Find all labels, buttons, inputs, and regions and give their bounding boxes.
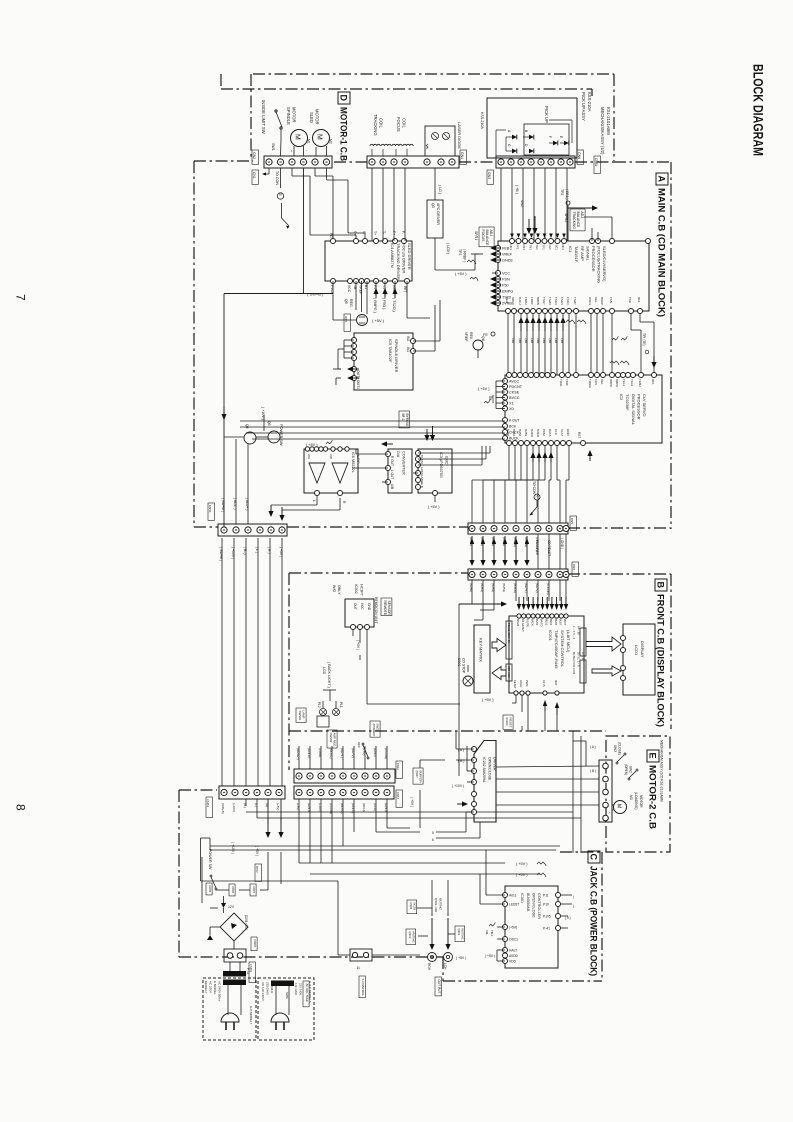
svg-text:B: B [656, 582, 666, 589]
svg-text:RF1: RF1 [651, 379, 655, 385]
arrows between CN5 and CN201 [469, 560, 474, 566]
svg-text:D206: D206 [231, 887, 235, 894]
svg-text:BVCC: BVCC [509, 396, 520, 400]
svg-text:L.P.F: L.P.F [356, 455, 360, 464]
svg-text:( +5V ): ( +5V ) [482, 698, 494, 702]
svg-text:KSS-210A: KSS-210A [587, 92, 592, 112]
svg-text:CN8: CN8 [572, 564, 576, 570]
svg-text:LRCK: LRCK [420, 467, 424, 475]
svg-text:FOCUS: FOCUS [481, 230, 485, 243]
svg-text:POWER SW: POWER SW [208, 849, 212, 870]
svg-text:W/G: W/G [332, 585, 336, 592]
svg-text:8ACK: 8ACK [530, 619, 534, 626]
svg-text:(POWER: (POWER [372, 724, 376, 737]
svg-text:+: + [289, 150, 293, 152]
svg-text:GND: GND [367, 603, 371, 611]
svg-text:OSC1: OSC1 [509, 937, 518, 941]
svg-text:CN6: CN6 [577, 152, 581, 159]
svg-text:TEL1: TEL1 [622, 379, 626, 387]
svg-text:110-120V: 110-120V [294, 983, 298, 995]
svg-text:FS1D: FS1D [566, 297, 570, 306]
svg-text:M: M [316, 134, 323, 140]
svg-text:DF RESET: DF RESET [521, 619, 525, 632]
svg-text:BLOCK DIAGRAM: BLOCK DIAGRAM [751, 64, 767, 156]
IC2 TC9236F [505, 375, 662, 443]
AC plug HUC [271, 1013, 289, 1022]
svg-text:LCD: LCD [322, 667, 326, 675]
svg-text:8U50: 8U50 [506, 429, 510, 437]
arrows on dac bus [381, 441, 387, 446]
svg-text:P13,15,KD20~22: P13,15,KD20~22 [507, 623, 511, 643]
svg-text:F8N: F8N [548, 338, 552, 343]
svg-text:VREF: VREF [464, 332, 468, 342]
op-amp B [332, 463, 348, 483]
svg-text:F8N: F8N [554, 338, 558, 343]
svg-text:TS1P: TS1P [542, 297, 546, 305]
svg-text:F: F [548, 136, 552, 138]
svg-text:AC 240V 50Hz: AC 240V 50Hz [218, 981, 222, 1001]
svg-text:MECHANISM ASSY (1/2): MECHANISM ASSY (1/2) [600, 107, 605, 155]
svg-text:PU INNER: PU INNER [535, 540, 539, 556]
svg-text:CONTROLLER: CONTROLLER [537, 893, 541, 919]
APC driver box [427, 200, 443, 238]
remote sensor unit IC302 [345, 599, 374, 627]
svg-text:RET: RET [403, 286, 407, 292]
svg-text:(KEY2): (KEY2) [535, 583, 539, 593]
op-amp IC1 TA8151F [498, 241, 649, 311]
svg-text:A OUT: A OUT [509, 419, 520, 423]
svg-text:FEB: FEB [502, 247, 510, 251]
mechanism assy boundary (dash-dot) [253, 73, 614, 75]
svg-text:50/60Hz: 50/60Hz [270, 982, 274, 994]
svg-text:TS2P: TS2P [573, 297, 577, 305]
left side stubs of IC1 [481, 247, 485, 249]
svg-text:IC203: IC203 [505, 718, 509, 726]
svg-text:8M8N: 8M8N [536, 297, 540, 305]
long front-jack wires [246, 811, 573, 813]
photo detector block [487, 98, 577, 158]
svg-text:Q3: Q3 [431, 203, 435, 208]
svg-text:(OPEN): (OPEN) [624, 764, 628, 775]
svg-text:( +5V ): ( +5V ) [410, 797, 414, 807]
svg-text:BUCK: BUCK [509, 437, 519, 441]
svg-text:+: + [608, 812, 612, 814]
svg-text:PL1: PL1 [339, 702, 343, 708]
svg-text:8U 8U2 CON COM: 8U 8U2 CON COM [572, 652, 576, 674]
svg-text:( LD0 ): ( LD0 ) [446, 243, 450, 254]
svg-text:( LD ): ( LD ) [438, 185, 442, 194]
bridge rectifier D201-204 [220, 913, 248, 941]
svg-text:BF 2: BF 2 [401, 414, 405, 421]
svg-text:1 ~ 4, 5 ~ 9: 1 ~ 4, 5 ~ 9 [572, 626, 576, 640]
svg-text:REG.: REG. [349, 299, 353, 308]
svg-text:GND3: GND3 [502, 259, 513, 263]
tracking balance adj SFR2 [570, 209, 585, 231]
svg-text:8U51: 8U51 [549, 619, 553, 626]
svg-text:8U50: 8U50 [554, 619, 558, 626]
svg-text:P11: P11 [543, 893, 549, 897]
svg-text:G.K MODEL?: G.K MODEL? [249, 1006, 253, 1025]
svg-text:ONLY: ONLY [337, 585, 341, 595]
wires to motor-2 conn [585, 741, 587, 766]
mains dashed box E/K models [203, 978, 256, 1040]
svg-text:PG/TR: PG/TR [526, 619, 530, 627]
BF bypass box [399, 411, 410, 428]
main c.b bottom border segments [194, 526, 218, 528]
transformer secondary wires [229, 985, 231, 986]
svg-text:8: 8 [14, 804, 28, 811]
svg-text:( F5O ): ( F5O ) [382, 298, 386, 309]
svg-text:SBA0: SBA0 [511, 297, 515, 305]
svg-text:CN2: CN2 [252, 152, 256, 159]
svg-text:MUT: MUT [554, 680, 558, 686]
svg-text:FOCUS: FOCUS [396, 117, 401, 132]
svg-text:Q4: Q4 [245, 424, 249, 429]
svg-text:CONVERTER: CONVERTER [402, 451, 406, 475]
IC201 system control [509, 616, 584, 693]
transformer PT1 [223, 971, 246, 977]
svg-text:D207: D207 [252, 887, 256, 894]
motor-2 connector [599, 760, 612, 822]
svg-text:OUT: OUT [353, 603, 357, 610]
svg-text:RST: RST [577, 432, 581, 438]
svg-text:REMOTE: REMOTE [383, 601, 387, 616]
svg-text:F8N: F8N [518, 338, 522, 343]
svg-text:TO CON: TO CON [275, 171, 279, 185]
sled motor M2 [313, 130, 330, 147]
svg-text:E: E [648, 753, 658, 759]
svg-text:RESET: RESET [509, 718, 513, 728]
wires pickup strip to IC1 [500, 168, 502, 210]
svg-text:TP3: TP3 [458, 249, 462, 255]
mains dashed box HUC models [258, 978, 314, 1040]
svg-text:PL2: PL2 [317, 702, 321, 708]
svg-text:FOCUS DRIVER: FOCUS DRIVER [402, 243, 407, 273]
svg-text:CLK: CLK [420, 455, 424, 461]
svg-text:SW302: SW302 [329, 733, 333, 743]
svg-text:TRUHI: TRUHI [588, 379, 592, 388]
svg-text:CKSE: CKSE [509, 391, 520, 395]
svg-text:T8L1: T8L1 [490, 930, 494, 937]
section label A MAIN C.B [656, 173, 668, 185]
svg-text:( +5V ): ( +5V ) [516, 873, 528, 877]
svg-text:P10: P10 [543, 902, 549, 906]
svg-text:FSN: FSN [502, 278, 510, 282]
svg-text:CN11: CN11 [396, 792, 400, 799]
svg-text:PICK UP: PICK UP [544, 106, 549, 123]
svg-text:ADJ.: ADJ. [489, 230, 493, 237]
svg-text:F8N: F8N [542, 338, 546, 343]
svg-text:(LOADING): (LOADING) [634, 792, 638, 810]
wires CN201 to IC201 arrow row [515, 580, 517, 601]
svg-text:AC 118-120V/: AC 118-120V/ [261, 982, 265, 1001]
svg-text:( +10V ): ( +10V ) [231, 547, 235, 559]
svg-text:PDCNT: PDCNT [509, 385, 523, 389]
svg-text:TMP47C450AF-R445: TMP47C450AF-R445 [554, 630, 559, 669]
muting transistors [407, 900, 417, 914]
svg-text:F8N: F8N [536, 338, 540, 343]
focus balance adj SFR1 [479, 227, 494, 247]
AC plug E/K [221, 1013, 239, 1022]
svg-text:IC5 TA8102F: IC5 TA8102F [388, 339, 393, 363]
svg-text:PROCESSOR: PROCESSOR [637, 394, 642, 420]
svg-text:MAIN C.B (CD MAIN BLOCK): MAIN C.B (CD MAIN BLOCK) [657, 188, 667, 317]
svg-text:CN51: CN51 [208, 505, 212, 513]
IC4 driver AN8827N [325, 241, 412, 281]
svg-text:8U5?: 8U5? [563, 619, 567, 626]
svg-text:(8UCK): (8UCK) [513, 583, 517, 593]
svg-text:X0: X0 [509, 407, 514, 411]
connector strip CN1 (motor board) [264, 156, 332, 168]
svg-text:LAMP: LAMP [302, 711, 306, 719]
IC202 outputs to loading motor connector [496, 766, 599, 767]
svg-text:FR8P: FR8P [530, 297, 534, 305]
svg-text:C: C [589, 854, 599, 861]
wires CN201 down [471, 575, 473, 605]
svg-text:FRONT C.B (DISPLAY BLOCK): FRONT C.B (DISPLAY BLOCK) [656, 594, 666, 727]
svg-text:( RREF ): ( RREF ) [463, 249, 467, 262]
svg-text:8U53: 8U53 [535, 619, 539, 626]
svg-text:KD0~KD3: KD0~KD3 [507, 666, 511, 678]
svg-text:(+5V): (+5V) [509, 925, 517, 929]
wires IC1 to IC2 [507, 314, 509, 375]
svg-text:TA8151F: TA8151F [574, 246, 579, 263]
svg-text:PT1: PT1 [246, 968, 250, 974]
svg-text:(P-CON): (P-CON) [546, 583, 550, 595]
strip1 pin fanout [268, 168, 270, 174]
misc jack wires [354, 831, 420, 833]
svg-text:( +B ): ( +B ) [515, 185, 519, 194]
svg-text:S-: S- [362, 231, 366, 234]
svg-text:XX IN: XX IN [542, 680, 546, 687]
svg-text:( B- ): ( B- ) [243, 547, 247, 555]
svg-text:5: 5 [278, 194, 282, 196]
svg-text:TS2N: TS2N [548, 297, 552, 305]
svg-text:IC4 AN8827N: IC4 AN8827N [390, 243, 395, 268]
svg-text:D/A: D/A [396, 451, 400, 458]
svg-text:Q301: Q301 [457, 929, 461, 936]
svg-text:( +5V ): ( +5V ) [306, 443, 318, 447]
svg-text:IC2: IC2 [619, 394, 624, 401]
svg-text:TRACKING: TRACKING [373, 114, 378, 136]
svg-text:HALT: HALT [509, 948, 517, 952]
svg-text:11 ~ 27: 11 ~ 27 [581, 652, 585, 661]
svg-text:MOTOR: MOTOR [292, 107, 297, 123]
svg-text:D205: D205 [208, 886, 212, 893]
svg-text:SFR1: SFR1 [474, 231, 478, 240]
svg-text:(4-8IT MCU): (4-8IT MCU) [566, 630, 571, 653]
svg-text:( SW+B ): ( SW+B ) [307, 291, 324, 296]
svg-text:( GND ): ( GND ) [560, 538, 564, 549]
motor wires to strip [293, 146, 295, 156]
svg-text:MOTOR: MOTOR [639, 795, 643, 808]
svg-text:A/B: A/B [390, 484, 394, 489]
svg-text:REMOCON UNIT: REMOCON UNIT [374, 597, 378, 624]
svg-text:CN61: CN61 [594, 158, 598, 166]
svg-text:FS1N: FS1N [560, 297, 564, 305]
main c.b right border [670, 162, 672, 529]
SW+B wire [224, 293, 333, 295]
svg-text:T+: T+ [373, 231, 377, 235]
svg-text:8U5?: 8U5? [559, 619, 563, 626]
svg-text:( +5V ): ( +5V ) [279, 547, 283, 557]
svg-text:RESET: RESET [513, 680, 517, 689]
svg-text:64 ~ 60: 64 ~ 60 [577, 626, 581, 635]
IC6 outputs to bus [316, 496, 318, 505]
svg-text:(8U53): (8U53) [502, 583, 506, 592]
svg-text:MODEL?: MODEL? [204, 981, 208, 994]
svg-text:IC1: IC1 [568, 246, 573, 253]
svg-text:TRACKING DRIVER: TRACKING DRIVER [396, 243, 401, 280]
svg-text:CD STOP: CD STOP [462, 658, 466, 674]
svg-text:6MPC: 6MPC [609, 379, 613, 388]
svg-text:IC301: IC301 [520, 893, 524, 903]
svg-text:SW301: SW301 [298, 711, 302, 721]
svg-text:(CLOSE): (CLOSE) [618, 742, 622, 755]
svg-text:8U1U: 8U1U [518, 297, 522, 305]
strip CN202 row B right [294, 786, 394, 799]
svg-text:DISPLAY: DISPLAY [640, 641, 645, 658]
svg-text:( +5V ): ( +5V ) [372, 318, 385, 323]
motor-2 mech boundary [606, 736, 670, 852]
svg-text:20~31, 1 ~ 9: 20~31, 1 ~ 9 [577, 652, 581, 667]
svg-text:SYSTEM CONTROL: SYSTEM CONTROL [560, 630, 565, 668]
svg-text:EMPG: EMPG [502, 290, 513, 294]
svg-text:( +5V ): ( +5V ) [456, 956, 466, 960]
wires from front into strips [298, 746, 300, 769]
svg-text:8UER: 8UER [536, 429, 540, 438]
IC2 left stubs [496, 380, 505, 382]
IC6 LPF opamps [304, 449, 358, 493]
svg-text:AVDD: AVDD [509, 954, 519, 958]
svg-text:( +5V ): ( +5V ) [478, 387, 490, 391]
svg-text:5: 5 [432, 831, 434, 835]
svg-text:AC 220V: AC 220V [209, 981, 213, 993]
svg-text:BALANCE: BALANCE [485, 230, 489, 247]
svg-text:D707: D707 [255, 866, 259, 873]
svg-text:SLED: SLED [309, 112, 314, 123]
svg-text:TP1: TP1 [542, 245, 546, 251]
svg-text:( R ): ( R ) [267, 547, 271, 554]
svg-text:( FMPG ): ( FMPG ) [373, 298, 377, 313]
svg-text:Q1L: Q1L [481, 336, 485, 342]
svg-text:J2: J2 [356, 966, 360, 970]
svg-text:VCC: VCC [347, 285, 351, 293]
svg-text:JACK C.B (POWER BLOCK): JACK C.B (POWER BLOCK) [589, 866, 599, 976]
svg-text:Q302: Q302 [408, 932, 412, 939]
svg-text:TS0: TS0 [628, 297, 632, 303]
svg-text:IC302: IC302 [354, 584, 358, 594]
svg-text:X8L: X8L [485, 930, 489, 935]
IC202 open/close driver [474, 741, 496, 823]
svg-text:EMC: EMC [445, 456, 449, 465]
IC1 bottom arrows [518, 317, 523, 323]
svg-text:IN2: IN2 [406, 336, 410, 341]
svg-text:-: - [305, 150, 309, 151]
svg-text:M1: M1 [307, 139, 311, 144]
laser diode block [425, 126, 455, 156]
svg-text:M: M [616, 804, 622, 808]
svg-text:8U52: 8U52 [544, 619, 548, 626]
svg-text:F8N: F8N [524, 338, 528, 343]
svg-text:BUFFER: BUFFER [419, 771, 423, 784]
svg-text:HC3P7: HC3P7 [360, 584, 364, 596]
svg-text:SW3: SW3 [613, 745, 617, 752]
svg-text:-: - [608, 800, 612, 801]
front c.b borders [289, 572, 468, 574]
svg-text:IN1: IN1 [406, 347, 410, 352]
svg-text:FE1: FE1 [548, 245, 552, 251]
svg-text:( TS2O ): ( TS2O ) [392, 298, 396, 312]
strip CN202 row B left [219, 786, 285, 799]
svg-text:SE1: SE1 [555, 245, 559, 251]
svg-text:BALANCE: BALANCE [576, 212, 580, 229]
svg-text:SLED DRIVER: SLED DRIVER [407, 243, 412, 270]
svg-text:M3: M3 [629, 795, 633, 800]
svg-text:( L ): ( L ) [255, 547, 259, 553]
svg-text:A011: A011 [509, 893, 517, 897]
rectifier diodes boxes [206, 883, 212, 895]
svg-text:KSL-2101ABM: KSL-2101ABM [606, 107, 611, 135]
svg-text:S CONTROL: S CONTROL [361, 979, 365, 997]
svg-text:RF1: RF1 [637, 297, 641, 303]
svg-text:TN1: TN1 [529, 245, 533, 251]
D/A converter [388, 449, 412, 493]
wires below strips [223, 793, 225, 800]
svg-text:HE1: HE1 [509, 245, 513, 251]
svg-text:COIL: COIL [402, 118, 407, 128]
svg-text:6MPC: 6MPC [615, 379, 619, 388]
svg-text:RE0.: RE0. [469, 332, 473, 340]
svg-text:FN1: FN1 [522, 245, 526, 251]
svg-text:( 5 ): ( 5 ) [565, 916, 571, 920]
svg-text:OFF: OFF [357, 742, 361, 748]
svg-text:APC DRIVER: APC DRIVER [436, 203, 440, 225]
svg-text:MOTOR-2 C.B: MOTOR-2 C.B [648, 765, 658, 830]
svg-text:SW2: SW2 [520, 200, 524, 207]
svg-text:( A ): ( A ) [590, 745, 596, 749]
wires IC2 bottom to strip CN5 [508, 446, 510, 480]
svg-text:8U53: 8U53 [524, 429, 528, 437]
svg-text:SIGNAL: SIGNAL [586, 246, 591, 261]
svg-text:FM8J: FM8J [524, 297, 528, 305]
svg-text:12V: 12V [228, 905, 235, 909]
key matrix [474, 625, 490, 693]
svg-text:TO CON: TO CON [532, 481, 536, 495]
svg-text:MOTOR: MOTOR [315, 109, 320, 125]
svg-text:D201~204: D201~204 [244, 915, 248, 930]
svg-text:RF1: RF1 [561, 245, 565, 251]
svg-text:F8N: F8N [511, 338, 515, 343]
svg-text:5: 5 [535, 495, 539, 497]
svg-text:CN3: CN3 [487, 172, 491, 179]
svg-text:FED: FED [505, 297, 509, 304]
svg-text:KSS-210A: KSS-210A [480, 112, 484, 129]
svg-text:IN178: IN178 [412, 903, 416, 911]
svg-text:BYPASS: BYPASS [405, 414, 409, 427]
left vertical bus (board interconnect) [221, 538, 223, 786]
horizontal bus lines to IC2 left pins [240, 420, 505, 422]
svg-text:SW2): SW2) [376, 724, 380, 732]
svg-text:A: A [657, 176, 667, 183]
svg-text:AMP REG: AMP REG [333, 733, 337, 747]
svg-text:CN10: CN10 [396, 763, 400, 771]
svg-text:RCH: RCH [427, 963, 431, 971]
svg-text:(KEY1): (KEY1) [524, 583, 528, 593]
connector strip CN3 (pickup) [496, 156, 575, 168]
svg-text:( B ): ( B ) [590, 769, 596, 773]
svg-text:MECHANISM ASSY (2/2) KSL-2101: MECHANISM ASSY (2/2) KSL-2101ABM [660, 740, 664, 802]
